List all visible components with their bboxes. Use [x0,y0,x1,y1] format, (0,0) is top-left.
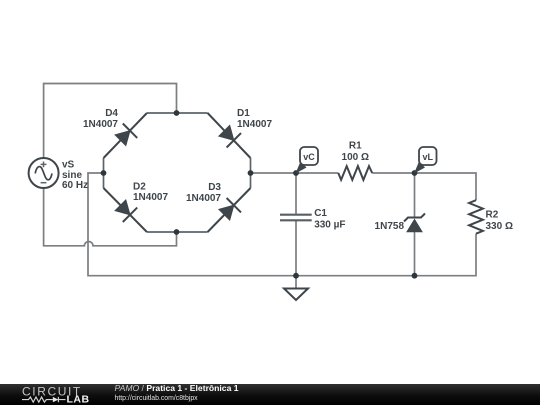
zener diode D5 1N758 [404,214,425,232]
svg-text:330 Ω: 330 Ω [486,221,513,232]
diode D2 (bridge bottom-left) [104,188,147,232]
wire bridge octagon right vertical [250,158,252,188]
node vC junction [293,170,299,176]
node: bridge bottom junction [174,229,180,235]
wire bridge left node to bottom rail [88,173,476,276]
wire vS bottom to bridge bottom node (with hop over vertical wire) [44,188,177,246]
node: bridge top junction [174,110,180,116]
ground [284,289,308,301]
wire C1 top lead [295,173,297,215]
svg-text:100 Ω: 100 Ω [342,152,369,163]
svg-text:D1: D1 [237,108,250,119]
wire zener D5 bottom lead [414,232,416,276]
svg-text:D4: D4 [105,108,118,119]
capacitor C1 [280,215,312,221]
wire bridge octagon left vertical [103,158,105,188]
svg-text:1N758: 1N758 [375,221,405,232]
node zener bottom junction [412,273,418,279]
node: bridge left junction [101,170,107,176]
wire zener D5 top lead [414,173,416,218]
footer bar [0,384,540,405]
svg-text:1N4007: 1N4007 [133,192,168,203]
wire vS top to bridge top node [44,84,177,159]
resistor R1 [338,166,372,180]
wire ground stem [295,276,297,289]
node vL junction [412,170,418,176]
svg-text:sine: sine [62,170,82,181]
diode D1 (bridge top-right) [208,113,251,158]
svg-text:D2: D2 [133,182,146,193]
probe flag vL [414,147,437,174]
probe flag vC [296,147,319,174]
svg-text:D3: D3 [208,182,221,193]
svg-text:vS: vS [62,159,75,170]
svg-text:1N4007: 1N4007 [83,119,118,130]
svg-text:vC: vC [303,152,315,162]
svg-text:1N4007: 1N4007 [186,193,221,204]
svg-text:PAMO / Pratica 1 - Eletrônica: PAMO / Pratica 1 - Eletrônica 1 [115,383,239,393]
wire R1 right to R2 top [372,173,476,200]
diode D3 (bridge bottom-right) [208,188,251,232]
svg-text:http://circuitlab.com/c8tbjpx: http://circuitlab.com/c8tbjpx [115,395,199,402]
svg-text:vL: vL [422,152,433,162]
voltage source vS [29,158,59,188]
wire bridge octagon bottom edge [147,231,208,233]
svg-text:R2: R2 [486,210,499,221]
node ground junction [293,273,299,279]
resistor R2 [469,200,483,234]
svg-text:LAB: LAB [67,394,90,405]
diode D4 (bridge top-left) [104,113,147,158]
svg-text:60 Hz: 60 Hz [62,180,88,191]
svg-text:330 µF: 330 µF [314,219,345,230]
svg-text:1N4007: 1N4007 [237,119,272,130]
CircuitLab logo schematic (resistor + diode) [22,397,66,402]
svg-text:C1: C1 [314,208,327,219]
node: bridge right junction [248,170,254,176]
wire bridge right node to R1 left [251,172,339,174]
svg-text:R1: R1 [349,140,362,151]
wire C1 bottom lead [295,220,297,275]
wire bridge octagon top edge [147,112,208,114]
